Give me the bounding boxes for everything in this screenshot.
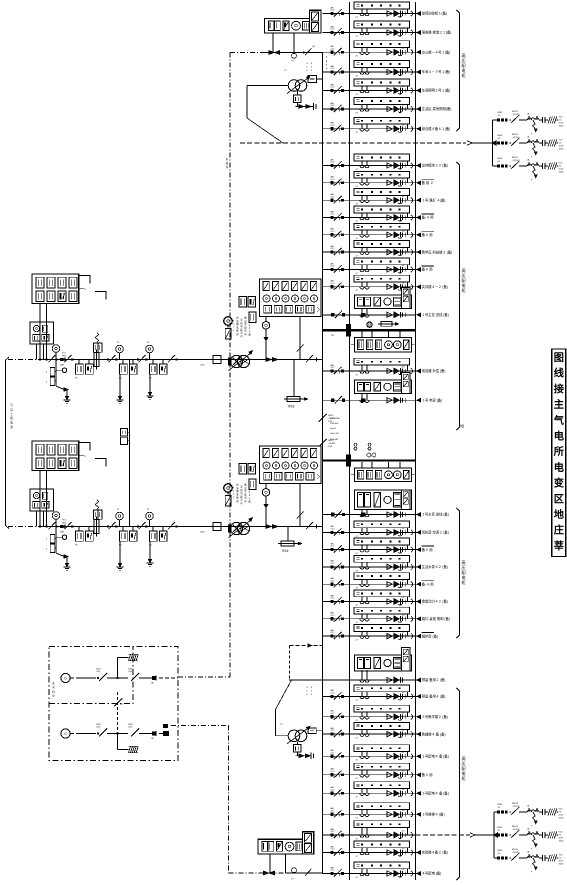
contactor boxes S2-G1 [78, 527, 80, 532]
svg-text:1DL: 1DL [402, 692, 405, 694]
current transformer TA25 [361, 729, 363, 734]
outdoor termination branch BOT3 [494, 857, 497, 859]
drawout breaker DL29 [387, 812, 392, 817]
svg-text:车间４－７号１(备): 车间４－７号１(备) [422, 69, 451, 74]
svg-text:柜: 柜 [461, 775, 465, 781]
drawout breaker DL3 [387, 50, 392, 55]
svg-text:1000: 1000 [559, 817, 565, 819]
feeder wire F4 [323, 71, 416, 73]
svg-text:１号 路灯 ４(备): １号 路灯 ４(备) [422, 197, 446, 202]
outdoor termination branch BOT2 [494, 834, 497, 836]
svg-text:综保测控柜１(备): 综保测控柜１(备) [422, 11, 447, 16]
cubicle drop F26 [407, 752, 409, 757]
cubicle hook 11 [411, 215, 413, 220]
current transformer TA11 [361, 213, 363, 218]
feeder cubicle F31 [354, 841, 410, 848]
post-transformer arrows M2 [266, 525, 272, 529]
cubicle drop F11 [407, 213, 409, 218]
feeder label 19 [422, 580, 434, 582]
feeder cubicle F8 [354, 154, 410, 161]
riser stack S1 [97, 343, 99, 353]
label 1AH [416, 314, 420, 316]
svg-text:１号 电容 (备): １号 电容 (备) [422, 397, 443, 402]
incoming cubicle 1AH [355, 295, 412, 309]
outgoing stub 4 [416, 71, 420, 73]
svg-text:备４ 用: 备４ 用 [422, 232, 433, 237]
svg-text:锅炉房 (备): 锅炉房 (备) [422, 633, 438, 638]
outdoor termination branch TOP3 [493, 165, 498, 167]
svg-text:-12/100: -12/100 [512, 160, 520, 162]
instrument stack M1-MS [239, 297, 247, 308]
svg-text:车间照明２号１(备): 车间照明２号１(备) [422, 88, 451, 93]
outgoing stub 15 [416, 286, 420, 288]
switch S2-QS4 [168, 522, 175, 529]
tie switch boxes [121, 429, 128, 436]
panel leader lines S2 [79, 443, 90, 451]
outgoing stub 25 [416, 733, 420, 735]
cubicle drop F12 [407, 230, 409, 235]
feeder label 9 [422, 178, 434, 180]
svg-text:Z-12: Z-12 [331, 546, 335, 548]
section breaker 2DL [346, 454, 351, 466]
cubicle hook 22 [411, 634, 413, 639]
cubicle hook 17 [411, 547, 413, 552]
current transformer TA26 [361, 752, 363, 757]
T4 HV lead [275, 735, 288, 737]
PT S2-G2 [116, 512, 124, 520]
drawout breaker DL22 [387, 634, 392, 639]
HV metering panel M1-PNL [260, 279, 322, 317]
drawout breaker DL4 [387, 69, 392, 74]
breaker QF25 [331, 733, 334, 736]
current transformer TA18 [361, 562, 363, 567]
meter S2-PA [62, 535, 66, 539]
svg-text:1DL: 1DL [402, 712, 405, 714]
drawout breaker DL21 [387, 616, 392, 621]
outgoing stub 29 [416, 813, 420, 815]
floor tie line [229, 872, 286, 874]
outgoing stub 27 [416, 774, 420, 776]
svg-text:电: 电 [10, 421, 13, 425]
svg-text:５号教学楼２ (备): ５号教学楼２ (备) [422, 714, 448, 719]
riser to transformer T4 [289, 646, 291, 681]
switch boxes S2 [50, 535, 54, 544]
svg-text:-12/400: -12/400 [328, 443, 336, 445]
breaker QF29 [331, 813, 334, 816]
svg-text:3x70: 3x70 [559, 814, 565, 816]
generator G1 outgoing [159, 677, 178, 679]
svg-text:柜: 柜 [461, 72, 465, 78]
feeder wire F9 [323, 182, 416, 184]
breaker QF20 [331, 600, 334, 603]
cubicle drop F1 [407, 9, 409, 14]
label 3AH [416, 514, 420, 516]
svg-text:交待模块２３ (备): 交待模块２３ (备) [422, 163, 448, 168]
drawout breaker DL5 [387, 88, 392, 93]
feeder wire F23 [323, 695, 416, 697]
svg-text:-12/100: -12/100 [512, 114, 520, 116]
svg-text:Z-12: Z-12 [331, 632, 335, 634]
svg-text:Z-12: Z-12 [331, 266, 335, 268]
feeder cubicle F9 [354, 171, 410, 178]
svg-text:电: 电 [554, 461, 565, 474]
svg-text:０: ０ [248, 324, 250, 327]
feeder cubicle F18 [354, 555, 410, 562]
svg-text:22-: 22- [559, 811, 562, 813]
current transformer TA22 [361, 631, 363, 636]
bus sectionalizer QS-I [319, 414, 327, 422]
svg-text:Z-12: Z-12 [331, 105, 335, 107]
svg-text:Z-12: Z-12 [331, 810, 335, 812]
current transformer TA2 [361, 28, 363, 33]
outgoing stub 2 [416, 32, 420, 34]
station transformer arrowbox M1 [293, 360, 295, 397]
ground lead S2 [56, 553, 64, 557]
generator G2 outgoing [159, 733, 163, 735]
drawing title text [553, 352, 565, 552]
svg-text:1DL: 1DL [402, 597, 405, 599]
low-voltage panel S2-P1 [32, 441, 79, 471]
feeder cubicle F3 [354, 41, 410, 48]
svg-text:备 用 ２: 备 用 ２ [422, 180, 434, 185]
meter M2-MS [224, 484, 232, 492]
svg-text:Z-12: Z-12 [331, 580, 335, 582]
cubicle drop F6 [407, 104, 409, 109]
svg-text:上: 上 [10, 412, 13, 416]
panel drops M2 [265, 484, 267, 527]
feeder cubicle F27 [354, 763, 410, 770]
current transformer TA13 [361, 247, 363, 252]
svg-text:GW9: GW9 [497, 850, 503, 852]
ground S2-E2 [119, 542, 121, 567]
cubicle drop F15 [407, 282, 409, 287]
svg-text:1DL: 1DL [402, 563, 405, 565]
svg-text:-12/100: -12/100 [512, 852, 520, 854]
cubicle 2AH instrument box [402, 373, 410, 394]
cubicle hook 18 [411, 564, 413, 569]
outgoing stub 19 [416, 583, 420, 585]
fuse S2-FU2 [94, 520, 99, 534]
outgoing stub 10 [416, 199, 420, 201]
incoming cubicle 3AH [355, 490, 412, 510]
alarm lamps [354, 443, 357, 446]
cubicle hook 5 [411, 88, 413, 93]
svg-text:RW11: RW11 [512, 134, 519, 136]
cubicle hook 10 [411, 198, 413, 203]
generator room inner partition [49, 647, 133, 704]
termination cluster TOP riser [492, 120, 494, 166]
outgoing stub 20 [416, 601, 420, 603]
T4 tap box [308, 728, 316, 733]
floor panel BP [258, 839, 314, 854]
outgoing stub 8 [416, 165, 420, 167]
feeder label 11 [422, 213, 434, 215]
feeder cubicle F22 [354, 625, 410, 632]
bus tie riser between incoming lines [128, 360, 130, 527]
cubicle drop F30 [407, 828, 409, 835]
switch group S1-G1 [63, 358, 65, 360]
svg-text:GW9: GW9 [497, 827, 503, 829]
svg-text:变: 变 [554, 477, 565, 490]
cubicle drop F28 [407, 789, 409, 794]
svg-text:图: 图 [554, 352, 564, 364]
breaker QF18 [331, 565, 334, 568]
svg-text:RW11: RW11 [512, 157, 519, 159]
svg-text:3x70: 3x70 [559, 837, 565, 839]
feeder cubicle F90 [354, 358, 410, 365]
feeder wire F31 [323, 852, 416, 854]
svg-text:电容器 补偿 (备): 电容器 补偿 (备) [422, 368, 446, 373]
instrument stack M2-MS [239, 464, 247, 475]
svg-text:3x70: 3x70 [559, 168, 565, 170]
current transformer TA14 [361, 265, 363, 270]
breaker QF6 [331, 107, 334, 110]
svg-text:Z-12: Z-12 [331, 849, 335, 851]
switch group S2-G2 [107, 525, 109, 527]
svg-text:Z-12: Z-12 [331, 563, 335, 565]
current transformer TA17 [361, 545, 363, 550]
drawout breaker DL2 [387, 30, 392, 35]
feeder wire F26 [323, 755, 416, 757]
outgoing stub 5 [416, 90, 420, 92]
feeder wire F22 [323, 635, 416, 637]
PT S1-G2 [116, 345, 124, 353]
breaker QF28 [331, 792, 334, 795]
svg-text:1DL: 1DL [402, 28, 405, 30]
outgoing stub 9 [416, 182, 420, 184]
svg-text:1DL: 1DL [402, 730, 405, 732]
ground lead S1 [56, 386, 64, 390]
cubicle 1AH instrument box [402, 287, 410, 308]
svg-text:1DL: 1DL [402, 196, 405, 198]
feeder cubicle F17 [354, 538, 410, 545]
breaker QF31 [331, 851, 334, 854]
roof panel side box [309, 10, 321, 33]
drawout breaker DL23 [387, 694, 392, 699]
generator G2 junction [107, 733, 117, 735]
junction blocks S2 [60, 525, 63, 528]
incoming feed line S2 [8, 526, 38, 528]
svg-text:自: 自 [10, 407, 13, 411]
PT S2-G3 [146, 512, 154, 520]
svg-text:1DL: 1DL [402, 68, 405, 70]
svg-text:1DL: 1DL [402, 48, 405, 50]
svg-text:1DL: 1DL [402, 248, 405, 250]
breaker QF23 [331, 695, 334, 698]
svg-text:Z-12: Z-12 [331, 693, 335, 695]
generator tie switch (vertical) [116, 692, 118, 750]
feeder cubicle F29 [354, 803, 410, 810]
contactor boxes S1-G1 [78, 360, 80, 365]
cubicle 3AH instrument box [402, 490, 410, 510]
breaker QF11 [331, 216, 334, 219]
svg-text:生活区-泵房照明(备): 生活区-泵房照明(备) [422, 106, 452, 111]
feeder cubicle F12 [354, 223, 410, 230]
svg-text:２号主变 进线 (备): ２号主变 进线 (备) [422, 512, 449, 517]
feeder wire F20 [323, 601, 416, 603]
svg-text:RW11: RW11 [512, 826, 519, 828]
feeder label 17 [422, 545, 434, 547]
generator room tie (upper) [178, 676, 230, 678]
outgoing stub 1 [416, 13, 420, 15]
svg-text:1000: 1000 [559, 148, 565, 150]
PT / metering cubicle 1PT [355, 337, 412, 352]
current transformer TA23 [361, 692, 363, 697]
svg-text:级: 级 [10, 416, 13, 420]
cubicle drop F90 [407, 365, 409, 371]
transformer M2-T [230, 522, 242, 534]
incoming wire 2AH [323, 399, 416, 401]
svg-text:1DL: 1DL [402, 213, 405, 215]
feeder wire F24 [323, 716, 416, 718]
outgoing stub 7 [416, 128, 420, 130]
feeder cubicle F16 [354, 521, 410, 528]
svg-text:Z-12: Z-12 [331, 248, 335, 250]
feeder wire F29 [323, 813, 416, 815]
svg-text:教辅楼４ 备 (备): 教辅楼４ 备 (备) [422, 731, 446, 736]
drawout breaker DL28 [387, 791, 392, 796]
meters above bus II [367, 453, 371, 457]
svg-text:办公楼－４号１(备): 办公楼－４号１(备) [422, 49, 451, 54]
label 4AH [416, 679, 420, 681]
svg-text:RW11: RW11 [512, 111, 519, 113]
svg-text:1DL: 1DL [402, 545, 405, 547]
outdoor termination branch TOP2 [493, 142, 498, 144]
svg-text:1DL: 1DL [402, 178, 405, 180]
svg-text:备４ 用: 备４ 用 [422, 772, 433, 777]
feeder wire F2 [323, 32, 416, 34]
incoming cubicle 4AH [355, 655, 412, 671]
svg-text:22-: 22- [559, 857, 562, 859]
feeder wire F19 [323, 583, 416, 585]
svg-text:Z-12: Z-12 [331, 831, 335, 833]
transfer switch box 1 [381, 322, 392, 327]
feeder cubicle F14 [354, 258, 410, 265]
cubicle hook 3 [411, 50, 413, 55]
cubicle drop F23 [407, 692, 409, 697]
svg-text:备-４ 用: 备-４ 用 [422, 215, 434, 220]
T3 HV lead [247, 85, 288, 87]
cubicle hook 28 [411, 791, 413, 796]
svg-text:1DL: 1DL [402, 367, 405, 369]
svg-text:-12/400: -12/400 [328, 418, 336, 420]
svg-text:柜: 柜 [461, 287, 465, 293]
cubicle 1PT bus stubs [361, 331, 363, 337]
line square S2 [213, 523, 221, 531]
feeder wire F16 [323, 531, 416, 533]
feeder cubicle F20 [354, 590, 410, 597]
outgoing stub 6 [416, 108, 420, 110]
drawout breaker DL15 [387, 284, 392, 289]
svg-text:1DL: 1DL [402, 770, 405, 772]
feeder cubicle F28 [354, 782, 410, 789]
svg-text:Z-12: Z-12 [331, 870, 335, 872]
drawout breaker DL19 [387, 582, 392, 587]
T3 tap box [308, 76, 317, 83]
svg-text:备-４ 用: 备-４ 用 [422, 581, 434, 586]
svg-text:22-: 22- [559, 165, 562, 167]
svg-text:１号主变 进线 (备): １号主变 进线 (备) [422, 312, 449, 317]
group bracket D [456, 688, 459, 880]
cubicle drop F2 [407, 28, 409, 33]
svg-text:GW9: GW9 [497, 158, 503, 160]
junction dots S1 [39, 359, 41, 361]
svg-text:1DL: 1DL [402, 282, 405, 284]
drawout breaker DL12 [387, 232, 392, 237]
switch group S1-G2 [107, 358, 109, 360]
breaker QF32 [331, 872, 334, 875]
drawout breaker DL13 [387, 250, 392, 255]
drawout breaker DL30 [387, 832, 392, 837]
transformer T4 (floor) [288, 730, 300, 742]
feeder wire F7 [323, 128, 416, 130]
cubicle drop F3 [407, 48, 409, 53]
current transformer TA20 [361, 597, 363, 602]
breaker QF12 [331, 233, 334, 236]
termination cluster BOT feeder arrow [470, 833, 475, 837]
site boundary dashed riser (upper) [229, 53, 231, 678]
current transformer TA31 [361, 848, 363, 853]
svg-text:YJV: YJV [559, 808, 564, 810]
svg-text:１号配电４ 备 (备): １号配电４ 备 (备) [422, 754, 449, 759]
svg-text:1AH: 1AH [60, 531, 64, 534]
outgoing stub 17 [416, 549, 420, 551]
cubicle drop F10 [407, 196, 409, 201]
svg-text:GN19: GN19 [328, 440, 334, 442]
feeder wire F14 [323, 269, 416, 271]
svg-text:路灯-景观 照明 (备): 路灯-景观 照明 (备) [422, 616, 450, 621]
cubicle drop F19 [407, 580, 409, 585]
group bracket B [456, 162, 459, 430]
current transformer TA8 [361, 161, 363, 166]
feeder cubicle F23 [354, 685, 410, 692]
outdoor termination branch TOP1 [493, 119, 498, 121]
feeder riser S1 [55, 360, 57, 387]
svg-text:Z-12: Z-12 [331, 162, 335, 164]
svg-text:-12/100: -12/100 [512, 806, 520, 808]
svg-text:1DL: 1DL [402, 86, 405, 88]
disconnect switch S1-QS1 [49, 355, 56, 362]
svg-text:22-: 22- [559, 119, 562, 121]
cubicle hook 31 [411, 850, 413, 855]
feeder wire F28 [323, 792, 416, 794]
breaker QF4 [331, 70, 334, 73]
svg-text:Z-12: Z-12 [331, 615, 335, 617]
generator G2 switch 1 [78, 733, 96, 735]
current transformer TA10 [361, 196, 363, 201]
breaker QF21 [331, 617, 334, 620]
current transformer TA16 [361, 528, 363, 533]
tie dash to bus (bottom) [290, 645, 323, 647]
cubicle drop F4 [407, 67, 409, 72]
cubicle 4AH instrument box [402, 648, 410, 671]
section breaker 1DL [346, 324, 351, 336]
floor tie marks [264, 871, 270, 875]
post-transformer arrows M1 [266, 358, 272, 362]
junction blocks S1 [60, 358, 63, 361]
feeder cubicle F21 [354, 607, 410, 614]
svg-text:YJV: YJV [559, 831, 564, 833]
station transformer arrowbox M2 [287, 527, 289, 542]
roof panel TP [265, 19, 322, 33]
cubicle hook 19 [411, 582, 413, 587]
feeder wire F21 [323, 618, 416, 620]
riser stack S2 [97, 510, 99, 520]
cubicle drop F22 [407, 631, 409, 636]
feeder label 14 [422, 265, 434, 267]
outgoing stub 26 [416, 755, 420, 757]
feeder cubicle F26 [354, 745, 410, 752]
